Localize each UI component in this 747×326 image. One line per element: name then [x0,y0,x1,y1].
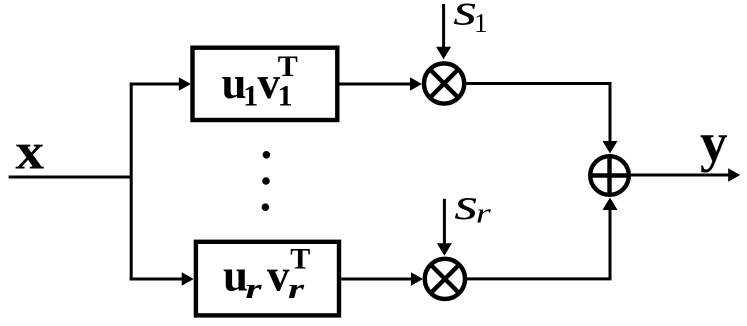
wire M1 to adder (right then down) [466,84,610,142]
svg-text:v: v [267,251,290,301]
wire branch to bottom box [130,278,183,281]
arrowhead output [728,168,740,181]
box Ur (ur vr^T) [196,242,339,316]
arrowhead into adder top [603,141,618,154]
svg-text:r: r [476,198,491,229]
arrowhead into bottom box [182,272,194,285]
svg-text:s: s [454,180,478,229]
svg-text:y: y [700,112,728,173]
svg-text:1: 1 [474,8,488,38]
label u1v1T [222,50,298,113]
wire top box to multiplier [340,83,411,86]
svg-text:r: r [288,273,305,305]
wire bottom box to multiplier M2 [341,278,411,281]
svg-text:x: x [15,124,44,181]
arrowhead into adder bottom [603,198,618,211]
multiplier M1 (circled X) [424,63,464,103]
svg-text:T: T [290,242,310,275]
wire branch to top box [130,83,180,86]
multiplier M2 (circled X) [425,259,465,299]
arrowhead into top box [179,77,191,90]
adder A1 (circled plus) [590,156,629,195]
wire sr vertical [443,199,446,244]
arrowhead into bottom multiplier [411,272,423,285]
label urvrT [223,242,310,305]
wire input horizontal [9,176,132,179]
arrowhead s1 into M1 [436,47,451,60]
svg-text:T: T [278,50,298,83]
wire branch vertical [130,83,133,281]
wire M2 to adder (right then up) [467,210,610,279]
arrowhead into top multiplier [410,77,422,90]
svg-text:u: u [223,251,248,301]
vertical ellipsis dots [263,151,271,159]
arrowhead sr into M2 [437,243,452,256]
wire output [631,174,729,177]
svg-text:1: 1 [278,80,293,113]
box U1 (u1 v1^T) [193,48,338,120]
svg-text:1: 1 [243,80,258,113]
svg-text:r: r [246,273,263,305]
wire s1 vertical [442,4,445,48]
